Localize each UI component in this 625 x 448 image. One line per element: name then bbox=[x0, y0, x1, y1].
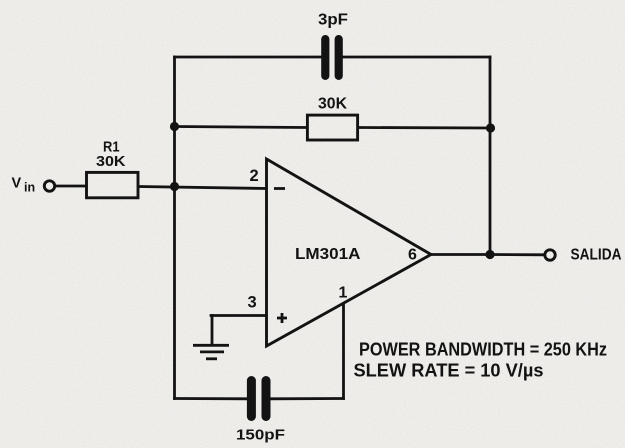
svg-text:3pF: 3pF bbox=[318, 12, 348, 29]
svg-text:1: 1 bbox=[339, 285, 348, 302]
svg-text:SALIDA: SALIDA bbox=[571, 247, 622, 264]
svg-text:V: V bbox=[12, 176, 22, 192]
svg-text:LM301A: LM301A bbox=[295, 246, 361, 263]
svg-text:3: 3 bbox=[248, 294, 257, 312]
svg-text:in: in bbox=[24, 181, 35, 195]
svg-text:30K: 30K bbox=[318, 96, 347, 113]
svg-text:SLEW RATE = 10 V/µs: SLEW RATE = 10 V/µs bbox=[354, 361, 544, 381]
svg-text:6: 6 bbox=[408, 247, 417, 264]
svg-text:30K: 30K bbox=[96, 154, 126, 170]
svg-text:2: 2 bbox=[250, 167, 259, 185]
svg-text:POWER BANDWIDTH = 250 KHz: POWER BANDWIDTH = 250 KHz bbox=[359, 340, 607, 360]
svg-text:150pF: 150pF bbox=[236, 427, 285, 444]
